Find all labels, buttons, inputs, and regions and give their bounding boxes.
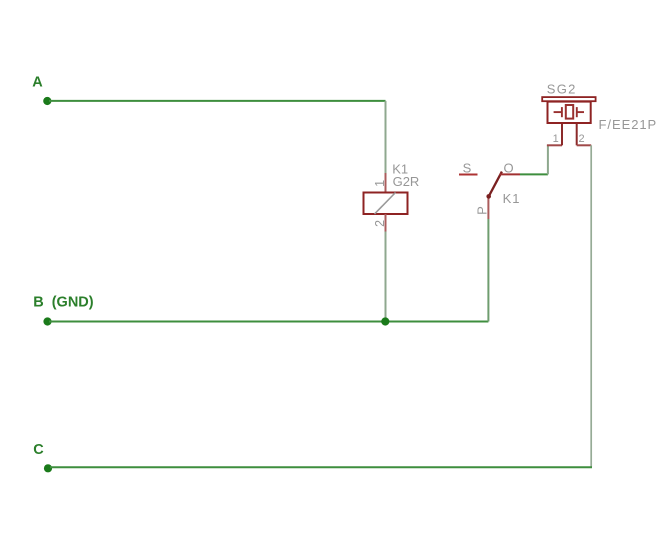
switch arm (489, 172, 502, 197)
svg-text:G2R: G2R (393, 174, 420, 189)
relay coil K1 G2R body (364, 193, 408, 215)
node B dot (43, 317, 51, 325)
buzzer SG2 body (548, 102, 591, 123)
svg-text:S: S (463, 160, 472, 175)
node A dot (43, 97, 51, 105)
svg-text:O: O (504, 160, 514, 175)
junction dot net B / coil pin 2 (381, 317, 389, 325)
relay coil K1 pin 2 stub (385, 214, 387, 232)
wire coil pin2 down to net B (385, 232, 387, 322)
buzzer SG2 pin 2 stub (576, 123, 578, 145)
svg-text:1: 1 (373, 180, 387, 187)
svg-text:2: 2 (373, 220, 387, 227)
switch pivot dot (486, 194, 491, 199)
buzzer SG2 pin 1 stub (561, 123, 563, 145)
wire net A vertical down to relay coil (385, 101, 387, 173)
wire net B horizontal (49, 321, 488, 323)
svg-text:K1: K1 (503, 191, 521, 206)
svg-text:F/EE21P: F/EE21P (599, 117, 658, 132)
wire net B vertical up to switch P (487, 219, 489, 322)
switch pin S stub (unconnected) (459, 174, 478, 176)
svg-text:C: C (33, 442, 44, 458)
wire switch O to buzzer pin 1: horizontal (520, 173, 548, 175)
svg-text:2: 2 (579, 133, 585, 145)
svg-text:B (GND): B (GND) (33, 294, 94, 310)
relay coil K1 pin 1 stub (385, 173, 387, 193)
svg-text:P: P (475, 206, 490, 215)
wire jog from buzzer pin 2 (577, 144, 592, 146)
wire net A horizontal (49, 100, 386, 102)
svg-text:1: 1 (553, 133, 559, 145)
wire net C vertical down (590, 145, 592, 467)
svg-text:A: A (32, 74, 43, 90)
wire net C horizontal (50, 466, 592, 468)
svg-text:SG2: SG2 (547, 82, 577, 97)
wire vertical up (547, 145, 549, 174)
switch pin O stub (500, 173, 521, 175)
buzzer SG2 body flange (542, 97, 595, 101)
switch K1 pin P stub (487, 197, 489, 220)
wire jog to pin 1 (547, 144, 562, 146)
node C dot (44, 464, 52, 472)
